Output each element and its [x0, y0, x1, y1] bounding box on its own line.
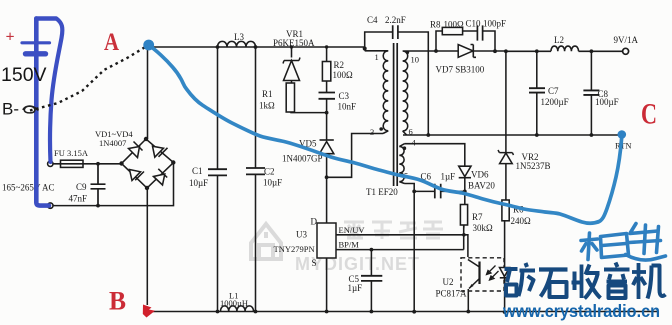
opto U2 dashed box	[461, 258, 504, 291]
inductor L2	[551, 46, 579, 51]
wire: AC bottom line	[53, 163, 174, 206]
svg-text:1000µH: 1000µH	[220, 298, 248, 308]
AC terminal bottom	[48, 203, 53, 208]
bridge diode bottom-right	[154, 169, 168, 185]
capacitor C4	[393, 25, 398, 39]
handwritten 相连	[581, 224, 666, 261]
diode VD6	[459, 166, 471, 191]
svg-text:9V/1A: 9V/1A	[614, 35, 639, 45]
polarity dot aux	[403, 146, 407, 150]
svg-text:47nF: 47nF	[69, 194, 88, 204]
wire: bottom primary rail	[147, 311, 657, 313]
wire: RTN rail	[403, 134, 622, 136]
svg-text:C2: C2	[264, 167, 275, 177]
svg-text:10nF: 10nF	[338, 102, 357, 112]
wire: bridge bottom to B node	[146, 188, 148, 305]
wire: R6 to opto LED	[504, 221, 506, 267]
wire: C2 column	[255, 47, 257, 312]
AC terminal top	[48, 161, 53, 166]
watermark layer	[251, 221, 443, 274]
svg-text:FU 3.15A: FU 3.15A	[54, 148, 89, 158]
svg-text:165~265V AC: 165~265V AC	[2, 183, 54, 193]
polarity dot pin3	[379, 127, 383, 131]
wire: drain node to pin3	[327, 134, 383, 178]
svg-text:R1: R1	[262, 89, 273, 99]
node clamp junction	[325, 111, 329, 115]
resistor R1	[286, 83, 294, 112]
svg-text:BAV20: BAV20	[468, 181, 495, 191]
svg-text:T1 EF20: T1 EF20	[366, 187, 398, 197]
svg-text:VD7 SB3100: VD7 SB3100	[436, 65, 485, 75]
wire: secondary output rail	[506, 50, 622, 52]
feedback column VR2	[505, 51, 507, 152]
svg-text:150V: 150V	[1, 64, 47, 86]
capacitor C7 column	[536, 51, 538, 135]
svg-text:S: S	[312, 258, 317, 268]
capacitor C9	[91, 164, 106, 206]
wire: pin4 to VD6	[405, 144, 465, 166]
svg-text:1: 1	[375, 52, 379, 62]
TVS VR1	[283, 47, 300, 83]
svg-text:1N5237B: 1N5237B	[516, 161, 551, 171]
scribble at B-	[23, 106, 39, 113]
capacitor C6	[435, 184, 441, 199]
wire: BP/M line	[336, 249, 464, 251]
svg-text:C7: C7	[548, 86, 559, 96]
wire: C6 link	[414, 190, 465, 192]
wire: drain node down to U3 D	[326, 177, 328, 223]
watermark CJK 数字之家 (abstract)	[344, 221, 443, 239]
svg-text:100Ω: 100Ω	[444, 20, 465, 30]
bridge diode top-left	[129, 142, 143, 158]
wire: A column to bridge top	[147, 45, 149, 139]
wire: C5 column	[370, 250, 372, 312]
svg-text:R7: R7	[472, 212, 483, 222]
transformer aux winding	[399, 144, 404, 184]
svg-text:C1: C1	[192, 166, 203, 176]
svg-text:TNY279PN: TNY279PN	[274, 244, 315, 254]
svg-text:C9: C9	[76, 182, 87, 192]
blue marker curve A to RTN	[149, 45, 622, 223]
snubber R8 C10 loop	[436, 31, 495, 51]
char shou	[573, 272, 577, 291]
svg-text:C3: C3	[339, 91, 350, 101]
output terminal 9V/1A	[623, 48, 629, 54]
svg-text:B: B	[109, 287, 126, 316]
capacitor C1	[208, 169, 227, 175]
svg-text:L3: L3	[234, 32, 244, 42]
svg-text:1N4007: 1N4007	[99, 138, 126, 148]
wire: pin10 to VD7 anode	[407, 50, 459, 52]
svg-text:1µF: 1µF	[348, 283, 363, 293]
bridge diode bottom-left	[130, 170, 145, 181]
diode VD5	[320, 113, 334, 177]
wire: C1 column	[217, 47, 219, 312]
char ji	[637, 263, 641, 299]
char kuang	[505, 267, 518, 271]
svg-text:100µF: 100µF	[595, 97, 619, 107]
svg-text:10µF: 10µF	[189, 178, 208, 188]
capacitor C8 column	[590, 51, 592, 135]
svg-text:C4: C4	[367, 15, 378, 25]
svg-text:+: +	[6, 29, 15, 46]
char shi	[539, 267, 568, 271]
svg-text:P6KE150A: P6KE150A	[273, 38, 315, 48]
wire: AC top line with fuse gap	[53, 163, 122, 165]
node drain junction	[325, 175, 329, 179]
svg-text:1kΩ: 1kΩ	[259, 101, 275, 111]
zener VR2	[498, 150, 514, 200]
bridge rectifier VD1~VD4 diamond	[122, 139, 174, 188]
crystalradio watermark	[502, 263, 665, 322]
svg-text:www.crystalradio.cn: www.crystalradio.cn	[502, 301, 660, 321]
opto transistor	[468, 260, 480, 312]
capacitor C3	[319, 93, 336, 99]
battery drawing blue	[22, 19, 62, 206]
svg-text:3: 3	[370, 127, 374, 137]
svg-text:6: 6	[409, 127, 413, 137]
svg-text:U3: U3	[296, 230, 307, 240]
resistor R7	[460, 191, 467, 229]
svg-text:R2: R2	[334, 60, 345, 70]
watermark house logo	[251, 224, 281, 259]
resistor R2	[322, 47, 330, 92]
wire: R7 bottom junction column	[463, 225, 465, 250]
svg-text:C10: C10	[466, 19, 482, 29]
inductor L1	[221, 306, 254, 312]
capacitor C7	[529, 88, 545, 92]
svg-text:R8: R8	[430, 20, 441, 30]
svg-text:C: C	[641, 98, 657, 131]
svg-text:240Ω: 240Ω	[511, 216, 532, 226]
svg-text:1200µF: 1200µF	[541, 97, 569, 107]
blue node dot RTN	[618, 130, 627, 139]
wire: pin5 column	[405, 184, 415, 313]
svg-text:VD6: VD6	[471, 170, 489, 180]
transformer core	[394, 43, 398, 186]
svg-text:2.2nF: 2.2nF	[385, 15, 406, 25]
svg-text:U2: U2	[443, 277, 454, 287]
svg-text:BP/M: BP/M	[339, 240, 360, 250]
transformer secondary winding	[403, 51, 408, 135]
svg-text:1µF: 1µF	[441, 172, 456, 182]
svg-text:10: 10	[411, 55, 420, 65]
svg-text:100Ω: 100Ω	[333, 70, 354, 80]
resistor R8	[442, 27, 462, 34]
wire: top primary rail	[148, 46, 365, 48]
resistor R6	[502, 200, 509, 221]
fuse FU 3.15A	[61, 160, 84, 167]
opto light arrows	[487, 266, 499, 281]
dotted line B to A	[30, 47, 146, 111]
svg-text:4: 4	[412, 138, 417, 148]
capacitor C5	[361, 276, 382, 281]
char yin	[616, 263, 618, 268]
bridge diode top-right	[153, 146, 168, 157]
blue node dot A	[143, 40, 154, 51]
wire: EN/UV line	[336, 235, 468, 257]
transformer T1 primary winding	[365, 47, 389, 134]
wire: R1 bottom to clamp node	[290, 111, 326, 114]
opto LED	[500, 268, 510, 314]
wire: U3 S to bottom rail	[326, 258, 328, 312]
svg-text:D: D	[311, 217, 318, 227]
capacitor C8	[583, 90, 599, 95]
svg-text:1N4007GP: 1N4007GP	[282, 154, 323, 164]
red arrow at B	[143, 305, 155, 318]
svg-text:100pF: 100pF	[483, 19, 506, 29]
svg-text:A: A	[104, 29, 119, 56]
polarity dot pin10	[406, 51, 410, 55]
wire: C4 loop	[365, 32, 429, 135]
capacitor C10	[477, 25, 482, 40]
big CJK 矿石收音机 strokes	[505, 263, 666, 300]
hand annotation layer	[1, 19, 666, 261]
svg-text:L2: L2	[554, 35, 564, 45]
diode VD7 schottky	[458, 45, 506, 58]
capacitor C2	[246, 168, 265, 174]
U3 TNY279PN body	[317, 223, 336, 258]
svg-text:PC817A: PC817A	[436, 289, 468, 299]
svg-text:B-: B-	[2, 100, 19, 119]
svg-text:30kΩ: 30kΩ	[473, 223, 494, 233]
inductor L3	[218, 41, 256, 47]
svg-text:10µF: 10µF	[263, 178, 282, 188]
svg-text:RTN: RTN	[615, 141, 632, 151]
svg-text:EN/UV: EN/UV	[339, 225, 366, 235]
